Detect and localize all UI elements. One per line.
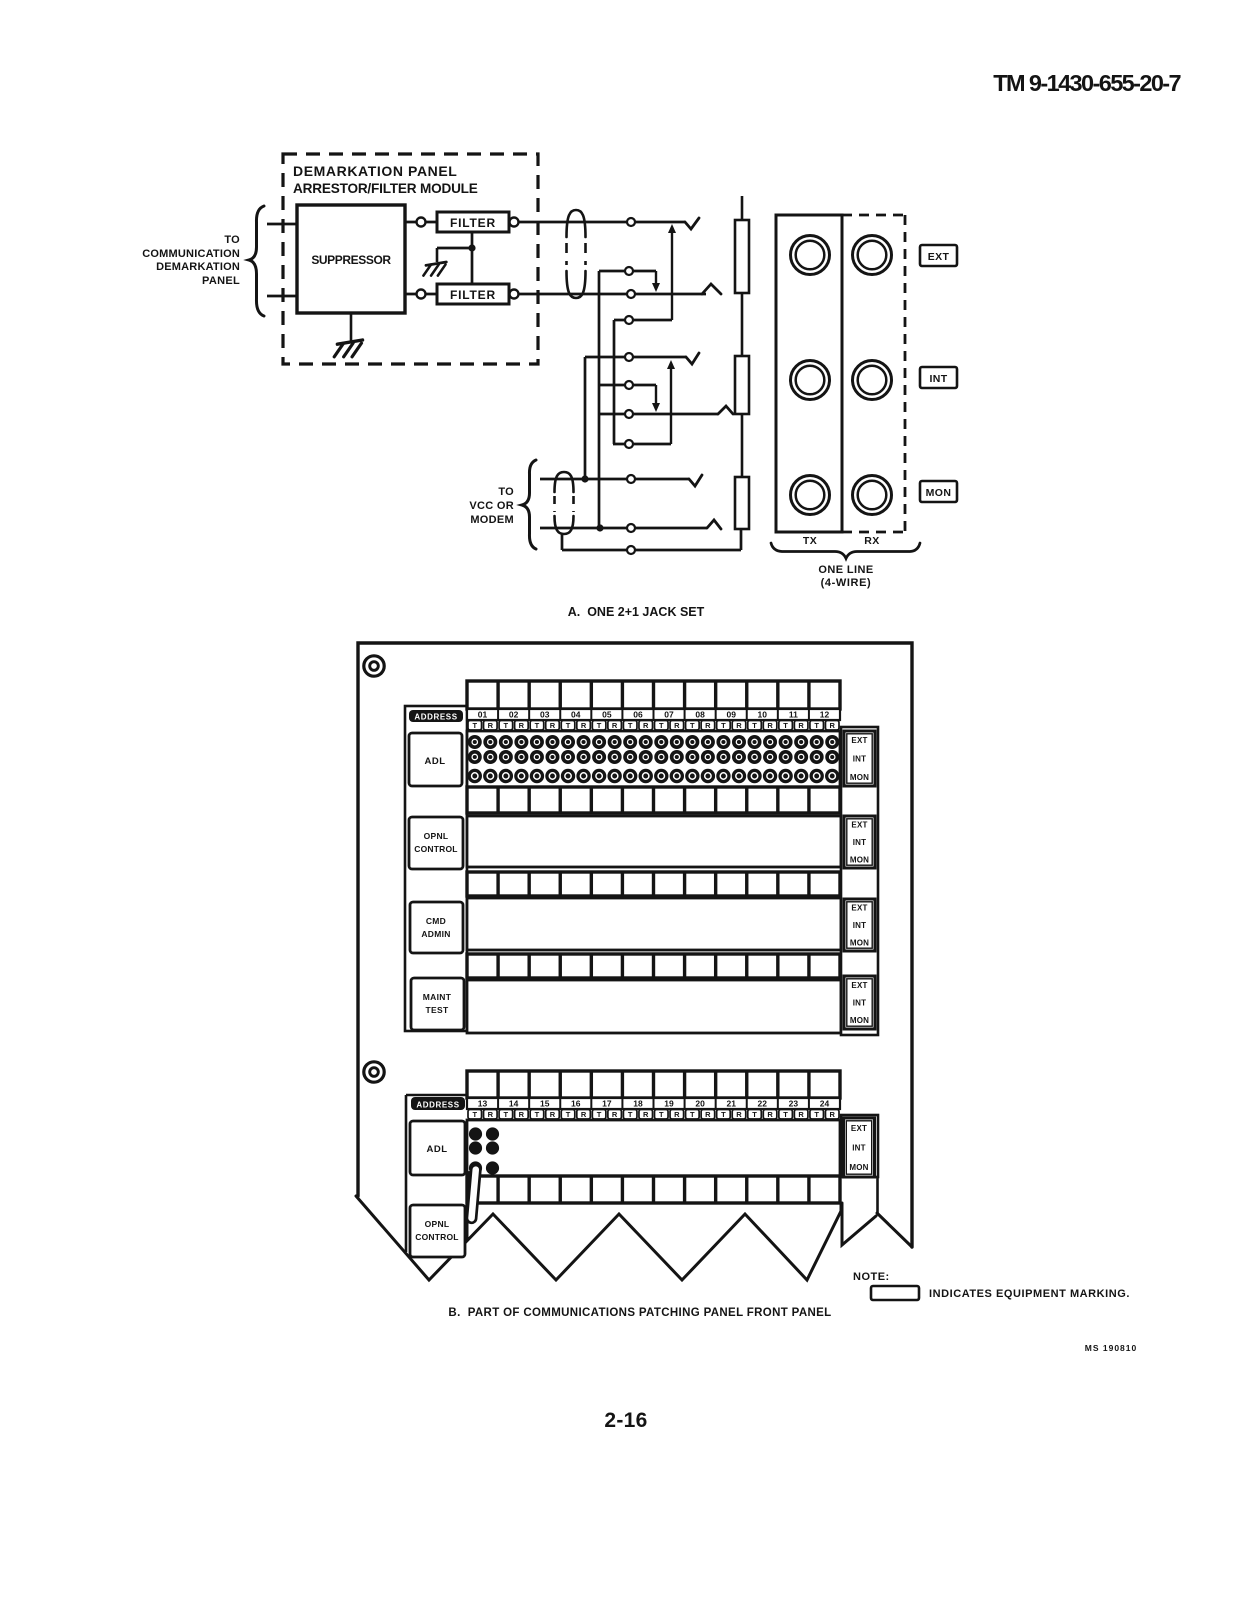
svg-text:T: T bbox=[535, 1110, 540, 1119]
suppressor U1 bbox=[297, 205, 405, 313]
torn edge right notch bbox=[842, 1203, 876, 1245]
line number header 01-12 bbox=[467, 709, 840, 720]
jack sleeve bar INT bbox=[735, 356, 749, 414]
svg-text:T: T bbox=[628, 1110, 633, 1119]
svg-text:T: T bbox=[752, 721, 757, 730]
svg-text:R: R bbox=[519, 1110, 525, 1119]
node: INT normal contact upper bbox=[599, 384, 656, 387]
svg-text:04: 04 bbox=[571, 710, 581, 720]
equipment squares row 6 bbox=[467, 1176, 840, 1203]
svg-text:R: R bbox=[612, 721, 618, 730]
svg-text:OPNL: OPNL bbox=[424, 831, 449, 841]
svg-text:16: 16 bbox=[571, 1099, 581, 1109]
svg-text:ADL: ADL bbox=[426, 1144, 447, 1155]
filter FL1 bbox=[417, 218, 426, 227]
ADL designation box bbox=[409, 733, 462, 786]
svg-text:MON: MON bbox=[850, 773, 869, 782]
svg-text:R: R bbox=[705, 721, 711, 730]
jack sleeve bar EXT bbox=[735, 220, 749, 293]
svg-text:22: 22 bbox=[758, 1099, 768, 1109]
svg-text:T: T bbox=[566, 1110, 571, 1119]
EXT INT MON column (right) bbox=[841, 727, 878, 1035]
wire: vertical bus x614 bbox=[613, 320, 616, 444]
occupied jacks (line 13) bbox=[469, 1127, 482, 1140]
strip left edge extension bbox=[466, 1203, 469, 1240]
svg-text:MON: MON bbox=[849, 1163, 868, 1172]
svg-text:T: T bbox=[721, 721, 726, 730]
lower jack strip bbox=[467, 1120, 840, 1176]
OPNL CONTROL designation box bbox=[409, 817, 463, 869]
svg-text:R: R bbox=[798, 721, 804, 730]
node: EXT normal contact upper bbox=[599, 270, 656, 273]
wire: vertical bus x585 bbox=[584, 357, 587, 479]
label box MON bbox=[920, 481, 957, 502]
svg-text:ARRESTOR/FILTER MODULE: ARRESTOR/FILTER MODULE bbox=[293, 181, 478, 196]
svg-text:03: 03 bbox=[540, 710, 550, 720]
patch plug hanging bbox=[471, 1171, 474, 1206]
screw top bbox=[364, 656, 384, 676]
svg-text:FILTER: FILTER bbox=[450, 216, 496, 230]
svg-text:T: T bbox=[535, 721, 540, 730]
tip/ring header row (upper) bbox=[468, 721, 482, 731]
CMD ADMIN designation box bbox=[410, 902, 463, 953]
svg-text:RX: RX bbox=[864, 535, 879, 547]
svg-text:R: R bbox=[830, 1110, 836, 1119]
svg-text:CONTROL: CONTROL bbox=[415, 1232, 458, 1242]
OPNL CONTROL jack strip (blank) bbox=[467, 816, 841, 867]
svg-text:12: 12 bbox=[820, 710, 830, 720]
svg-text:MON: MON bbox=[850, 855, 869, 864]
svg-text:EXT: EXT bbox=[851, 904, 867, 913]
svg-text:MON: MON bbox=[926, 487, 952, 499]
svg-text:ADMIN: ADMIN bbox=[421, 929, 450, 939]
torn edge sawtooth bbox=[356, 1196, 841, 1280]
svg-text:R: R bbox=[798, 1110, 804, 1119]
wire: filter 1 output (EXT TX spring) bbox=[519, 221, 685, 224]
svg-text:ADDRESS: ADDRESS bbox=[416, 1101, 459, 1110]
note sample box bbox=[871, 1286, 919, 1300]
svg-text:A. ONE 2+1 JACK SET: A. ONE 2+1 JACK SET bbox=[568, 605, 705, 619]
OPNL CONTROL designation box (lower) bbox=[410, 1205, 465, 1257]
label box INT bbox=[920, 367, 957, 388]
svg-text:INT: INT bbox=[853, 755, 867, 764]
svg-text:CONTROL: CONTROL bbox=[414, 844, 457, 854]
jack INT RX bbox=[853, 361, 892, 400]
lower EXT INT MON label box bbox=[841, 1115, 878, 1177]
enclosure: demarkation panel dashed box bbox=[283, 154, 538, 364]
svg-text:ONE LINE: ONE LINE bbox=[818, 564, 873, 576]
svg-text:MON: MON bbox=[850, 938, 869, 947]
svg-text:OPNL: OPNL bbox=[425, 1219, 450, 1229]
svg-text:15: 15 bbox=[540, 1099, 550, 1109]
equipment squares row 5 bbox=[467, 1071, 840, 1098]
svg-text:INT: INT bbox=[929, 373, 947, 385]
svg-text:R: R bbox=[488, 1110, 494, 1119]
wire: input pair to suppressor bbox=[267, 223, 297, 226]
svg-text:DEMARKATION: DEMARKATION bbox=[156, 261, 240, 273]
svg-text:13: 13 bbox=[478, 1099, 488, 1109]
svg-text:INT: INT bbox=[853, 838, 867, 847]
arrow: INT lower normal to TX bbox=[670, 366, 672, 444]
wire: INT RX spring bbox=[599, 413, 718, 416]
svg-text:T: T bbox=[690, 1110, 695, 1119]
screw bottom bbox=[364, 1062, 384, 1082]
tip/ring header row (lower) bbox=[468, 1110, 482, 1120]
jack sleeve bar MON bbox=[735, 477, 749, 529]
svg-text:T: T bbox=[504, 1110, 509, 1119]
svg-text:INT: INT bbox=[853, 921, 867, 930]
svg-text:EXT: EXT bbox=[851, 981, 867, 990]
shielded pair oval (bottom) bbox=[555, 472, 574, 492]
svg-text:NOTE:: NOTE: bbox=[853, 1271, 890, 1283]
wire: filter 2 output (EXT RX spring) bbox=[519, 293, 706, 296]
svg-text:MON: MON bbox=[850, 1016, 869, 1025]
CMD ADMIN jack strip (blank) bbox=[467, 898, 841, 950]
svg-text:2-16: 2-16 bbox=[604, 1409, 647, 1432]
svg-text:R: R bbox=[519, 721, 525, 730]
svg-text:T: T bbox=[814, 1110, 819, 1119]
svg-text:EXT: EXT bbox=[851, 1124, 867, 1133]
svg-text:TO: TO bbox=[224, 234, 240, 246]
svg-text:R: R bbox=[736, 1110, 742, 1119]
equipment squares row 3 bbox=[467, 872, 840, 896]
svg-text:T: T bbox=[783, 1110, 788, 1119]
svg-text:18: 18 bbox=[633, 1099, 643, 1109]
svg-text:R: R bbox=[550, 1110, 556, 1119]
svg-text:EXT: EXT bbox=[928, 251, 950, 263]
wire: MON TX spring from VCC bbox=[540, 478, 689, 481]
jack EXT RX bbox=[853, 236, 892, 275]
svg-text:07: 07 bbox=[664, 710, 674, 720]
wire: suppressor to filter 2 bbox=[405, 293, 437, 296]
svg-text:FILTER: FILTER bbox=[450, 288, 496, 302]
ground: filter tie chassis ground bbox=[426, 262, 446, 265]
svg-text:08: 08 bbox=[695, 710, 705, 720]
svg-text:T: T bbox=[659, 1110, 664, 1119]
svg-text:T: T bbox=[783, 721, 788, 730]
svg-text:R: R bbox=[581, 1110, 587, 1119]
address label (lower) bbox=[405, 1095, 408, 1252]
svg-text:INDICATES EQUIPMENT MARKING.: INDICATES EQUIPMENT MARKING. bbox=[929, 1288, 1130, 1300]
svg-text:TM 9-1430-655-20-7: TM 9-1430-655-20-7 bbox=[993, 70, 1181, 96]
svg-text:R: R bbox=[767, 1110, 773, 1119]
svg-text:19: 19 bbox=[664, 1099, 674, 1109]
svg-text:05: 05 bbox=[602, 710, 612, 720]
jack EXT TX bbox=[791, 236, 830, 275]
svg-text:DEMARKATION PANEL: DEMARKATION PANEL bbox=[293, 163, 457, 179]
svg-text:11: 11 bbox=[789, 710, 798, 720]
svg-text:T: T bbox=[566, 721, 571, 730]
wire: INT TX spring bbox=[585, 356, 686, 359]
svg-text:R: R bbox=[612, 1110, 618, 1119]
jack sleeve stub bbox=[741, 196, 744, 221]
svg-text:EXT: EXT bbox=[851, 821, 867, 830]
svg-text:06: 06 bbox=[633, 710, 643, 720]
svg-text:R: R bbox=[767, 721, 773, 730]
arrow: EXT upper normal to RX bbox=[655, 271, 657, 286]
brace: to communication demarkation panel bbox=[249, 206, 264, 316]
svg-text:24: 24 bbox=[820, 1099, 830, 1109]
svg-text:R: R bbox=[643, 721, 649, 730]
svg-text:R: R bbox=[674, 1110, 680, 1119]
ground: suppressor chassis ground bbox=[350, 313, 353, 341]
svg-text:(4-WIRE): (4-WIRE) bbox=[821, 577, 872, 589]
svg-text:MODEM: MODEM bbox=[470, 514, 514, 526]
jack INT TX bbox=[791, 361, 830, 400]
svg-text:R: R bbox=[643, 1110, 649, 1119]
svg-text:R: R bbox=[488, 721, 494, 730]
svg-text:T: T bbox=[472, 721, 477, 730]
panel outer border bbox=[358, 643, 912, 1247]
wire: shield sleeve return bbox=[561, 534, 564, 550]
equipment squares row 4 bbox=[467, 954, 840, 978]
svg-text:TO: TO bbox=[498, 486, 514, 498]
svg-text:T: T bbox=[721, 1110, 726, 1119]
svg-text:ADL: ADL bbox=[424, 756, 445, 767]
svg-text:SUPPRESSOR: SUPPRESSOR bbox=[311, 253, 391, 267]
svg-text:T: T bbox=[659, 721, 664, 730]
svg-text:COMMUNICATION: COMMUNICATION bbox=[142, 248, 240, 260]
svg-text:T: T bbox=[628, 721, 633, 730]
svg-text:R: R bbox=[705, 1110, 711, 1119]
wire: inter-filter tie with junction bbox=[471, 232, 474, 284]
svg-text:MS 190810: MS 190810 bbox=[1085, 1343, 1137, 1353]
underbrace one line bbox=[771, 543, 920, 559]
filter FL2 bbox=[417, 290, 426, 299]
svg-text:R: R bbox=[736, 721, 742, 730]
svg-text:T: T bbox=[814, 721, 819, 730]
svg-text:R: R bbox=[581, 721, 587, 730]
svg-text:T: T bbox=[690, 721, 695, 730]
svg-text:T: T bbox=[752, 1110, 757, 1119]
label box EXT INT MON bbox=[844, 899, 875, 951]
shielded pair oval (top) bbox=[567, 210, 586, 237]
svg-text:T: T bbox=[597, 1110, 602, 1119]
svg-text:PANEL: PANEL bbox=[202, 275, 240, 287]
MAINT TEST designation box bbox=[411, 978, 464, 1030]
jack panel TX column bbox=[776, 215, 842, 532]
jack MON RX bbox=[853, 476, 892, 515]
svg-text:17: 17 bbox=[602, 1099, 612, 1109]
svg-text:02: 02 bbox=[509, 710, 519, 720]
svg-text:T: T bbox=[472, 1110, 477, 1119]
label box EXT INT MON bbox=[844, 816, 875, 868]
wire: MON RX spring from VCC bbox=[540, 527, 707, 530]
torn edge right bbox=[877, 1213, 912, 1247]
ADL jack field bbox=[467, 731, 840, 787]
svg-text:01: 01 bbox=[478, 710, 488, 720]
MAINT TEST jack strip (blank) bbox=[467, 980, 841, 1033]
ADL designation box (lower) bbox=[410, 1121, 465, 1175]
svg-text:21: 21 bbox=[726, 1099, 736, 1109]
jack MON TX bbox=[791, 476, 830, 515]
svg-text:CMD: CMD bbox=[426, 916, 446, 926]
label box EXT INT MON bbox=[844, 976, 875, 1029]
svg-text:10: 10 bbox=[758, 710, 768, 720]
equipment squares row 2 bbox=[467, 787, 840, 813]
svg-text:TEST: TEST bbox=[426, 1005, 449, 1015]
node: EXT normal contact lower bbox=[614, 319, 672, 322]
svg-text:TX: TX bbox=[803, 535, 817, 547]
equipment squares row 1 bbox=[467, 681, 840, 709]
label box EXT INT MON bbox=[844, 731, 875, 786]
arrow: INT upper normal to RX bbox=[655, 385, 657, 406]
svg-text:14: 14 bbox=[509, 1099, 519, 1109]
wire: vertical bus x599 bbox=[598, 271, 601, 528]
wire: suppressor to filter 1 bbox=[405, 221, 437, 224]
svg-text:B. PART OF COMMUNICATIONS PAT: B. PART OF COMMUNICATIONS PATCHING PANEL… bbox=[448, 1307, 831, 1319]
svg-text:R: R bbox=[674, 721, 680, 730]
svg-text:T: T bbox=[504, 721, 509, 730]
svg-text:09: 09 bbox=[726, 710, 736, 720]
jack panel RX column (dashed) bbox=[842, 214, 905, 217]
svg-text:23: 23 bbox=[789, 1099, 799, 1109]
svg-text:INT: INT bbox=[853, 999, 867, 1008]
svg-text:INT: INT bbox=[852, 1144, 866, 1153]
svg-text:T: T bbox=[597, 721, 602, 730]
svg-text:R: R bbox=[550, 721, 556, 730]
brace: to VCC or modem bbox=[522, 460, 536, 549]
svg-text:ADDRESS: ADDRESS bbox=[414, 713, 457, 722]
svg-text:MAINT: MAINT bbox=[423, 992, 452, 1002]
node: INT normal contact lower bbox=[613, 443, 671, 446]
line number header 13-24 bbox=[467, 1098, 840, 1109]
svg-text:EXT: EXT bbox=[851, 736, 867, 745]
address label (upper) bbox=[405, 706, 467, 1031]
arrow: EXT lower normal to TX bbox=[671, 230, 673, 320]
svg-text:R: R bbox=[830, 721, 836, 730]
label box EXT bbox=[920, 245, 957, 266]
svg-text:VCC OR: VCC OR bbox=[469, 500, 514, 512]
svg-text:20: 20 bbox=[695, 1099, 705, 1109]
